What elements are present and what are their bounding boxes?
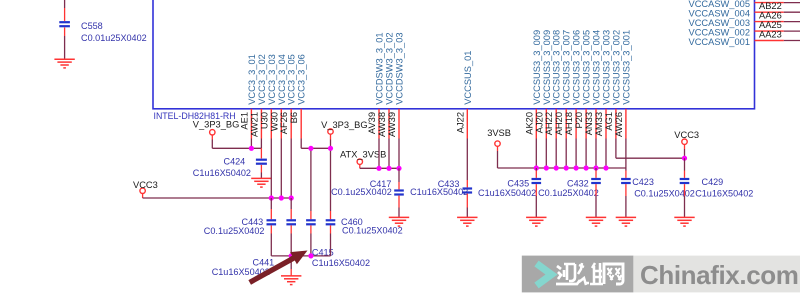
wire to C417 [398,168,400,189]
wire AK20 extension [535,139,537,169]
wire 3VSB drop [497,146,499,168]
svg-text:C1u16X50402: C1u16X50402 [478,188,536,198]
wire AF26 extension [290,139,292,199]
svg-text:AH18: AH18 [564,112,574,135]
wire C424 to ground [260,165,262,179]
svg-text:Chinafix.com: Chinafix.com [640,260,798,290]
svg-text:AA26: AA26 [759,11,782,21]
node junction C460 top [328,146,333,151]
svg-text:VCC3: VCC3 [133,180,158,190]
wire ATX_3VSB drop [359,164,361,168]
capacitor C443 [204,217,276,236]
wire AM33 extension [605,139,607,169]
wire bottom rail to ground [290,256,292,276]
wire AW38 extension [388,139,390,169]
node junction C415 top [308,146,313,151]
svg-text:VCC3: VCC3 [674,130,699,140]
capacitor C441 [212,219,296,277]
pin AA26 (VCCASW_003) right edge [689,11,800,28]
svg-text:AN33: AN33 [584,112,594,135]
node junction AE1/V_3P3_BG [249,146,254,151]
wire AJ20 extension [545,139,547,169]
wire net to C558 [64,0,66,21]
svg-text:VCCDSW3_3_01: VCCDSW3_3_01 [375,32,385,104]
capacitor C558 [59,21,146,43]
pin AE1 (VCC3_3_01) stub and labels [239,54,257,138]
svg-text:V_3P3_BG: V_3P3_BG [321,120,368,130]
pin AV39 (VCCDSW3_3_01) stub and labels [367,32,385,138]
svg-text:VCC3_3_01: VCC3_3_01 [247,54,257,105]
svg-text:AK20: AK20 [524,112,534,135]
wire C423 to ground [625,184,627,217]
svg-text:VCCSUS3_3_003: VCCSUS3_3_003 [602,30,612,105]
pin AA23 (VCCASW_001) right edge [689,30,800,47]
ground G-C423 [616,217,636,226]
svg-text:AJ20: AJ20 [534,112,544,133]
node junction U30/VCC3 [269,195,274,200]
pin AK20 (VCCSUS3_3_009) stub and labels [524,30,542,139]
wire to C443 [270,198,272,219]
svg-text:C432: C432 [567,179,589,189]
svg-text:C423: C423 [632,177,654,187]
pin AA25 (VCCASW_002) right edge [689,20,800,37]
pin AW26 (VCCSUS3_3_001) stub and labels [614,30,632,139]
capacitor C423 [621,177,695,198]
wire AH18 extension [575,139,577,169]
ground G-C424 [251,178,271,187]
wire AV39 extension [378,139,380,169]
wire AE1 extension [250,139,252,149]
svg-text:AM33: AM33 [594,112,604,136]
svg-text:3VSB: 3VSB [487,128,511,138]
svg-text:C435: C435 [507,179,529,189]
wire C415 bottom [310,225,312,256]
svg-text:C441: C441 [253,258,275,268]
wire C443 bottom [270,225,272,256]
svg-text:C0.1u25X0402: C0.1u25X0402 [342,225,403,235]
node junction AH18 [574,165,579,170]
pin AM33 (VCCSUS3_3_003) stub and labels [594,30,612,139]
wire C429 to ground [684,184,686,217]
node VCC3 right flag [674,130,699,144]
svg-text:VCC3_3_03: VCC3_3_03 [267,54,277,105]
node VCC3 left flag [133,180,158,194]
wire C441 bottom [290,225,292,256]
wire C460 bottom [330,225,332,256]
svg-text:P20: P20 [574,112,584,129]
node junction AK20 [534,165,539,170]
node junction AW38 [386,166,391,171]
node V_3P3_BG left flag [193,119,240,135]
capacitor C429 [680,177,754,198]
svg-text:VCCDSW3_3_02: VCCDSW3_3_02 [385,32,395,104]
node junction AH22 [554,165,559,170]
svg-text:VCCSUS3_3_002: VCCSUS3_3_002 [611,30,621,105]
svg-text:VCC3_3_04: VCC3_3_04 [277,54,287,105]
capacitor C417 [331,179,404,197]
svg-text:C558: C558 [81,21,103,31]
ground G-C432 [586,217,606,226]
wire B6 horizontal [301,147,330,149]
pin B6 (VCC3_3_06) stub and labels [289,54,307,138]
svg-text:VCCSUS3_3_009: VCCSUS3_3_009 [532,30,542,105]
pin (VCCASW_005) right edge [689,0,800,9]
svg-text:C429: C429 [702,177,724,187]
svg-text:VCCSUS3_3_008: VCCSUS3_3_008 [552,30,562,105]
capacitor C432 [538,178,601,198]
node junction AM33 [603,165,608,170]
ground G-C558 [54,59,74,68]
wire to C432 [595,168,597,178]
node junction AH20 [564,165,569,170]
svg-text:VCCSUS3_3_006: VCCSUS3_3_006 [572,30,582,105]
wire VCC3 drop [142,194,144,198]
wire AJ22 extension [466,139,468,188]
pin AH20 (VCCSUS3_3_007) stub and labels [554,30,572,139]
svg-text:AG1: AG1 [604,112,614,131]
wire AH22 extension [555,139,557,169]
node 3VSB flag [487,128,511,147]
svg-text:C1u16X50402: C1u16X50402 [312,258,370,268]
wire ATX_3VSB rail [360,167,399,169]
node junction W30/VCC3 [279,195,284,200]
wire VCC3 right drop [684,144,686,158]
node junction AN33 [593,165,598,170]
capacitor C460 [326,217,403,236]
svg-text:VCCSUS_01: VCCSUS_01 [463,51,473,105]
svg-text:AV39: AV39 [367,112,377,134]
svg-text:C0.1u25X0402: C0.1u25X0402 [331,187,392,197]
wire VCC3 rail [143,197,292,199]
annotation arrow to C415 [248,251,307,285]
wire bottom rail [271,255,330,257]
svg-text:AJ22: AJ22 [455,112,465,133]
wire AW21 extension [260,139,262,149]
pin AH18 (VCCSUS3_3_006) stub and labels [564,30,582,139]
node junction VCC3/C429 [682,156,687,161]
watermark chinafix [522,256,800,293]
wire U30 extension [270,139,272,199]
wire to C435 [535,168,537,178]
pin AF26 (VCC3_3_05) stub and labels [279,54,297,138]
node junction AJ20 [544,165,549,170]
svg-text:C1u16X50402: C1u16X50402 [410,187,468,197]
svg-text:V_3P3_BG: V_3P3_BG [193,119,240,129]
wire P20 extension [585,139,587,169]
svg-text:W30: W30 [269,112,279,131]
ground G-C417 [389,217,409,226]
node junction AW39 [396,166,401,171]
ground G-C433 [457,217,477,226]
wire to C460 [330,148,332,219]
svg-text:VCCSUS3_3_004: VCCSUS3_3_004 [592,30,602,105]
capacitor C435 [478,178,541,198]
wire to C429 [684,158,686,178]
svg-text:AW38: AW38 [377,112,387,137]
svg-text:AW39: AW39 [387,112,397,137]
wire AW39 extension [398,139,400,169]
ground G-bottom [281,276,301,285]
wire to C415 [310,148,312,219]
wire C433 to ground [466,194,468,218]
capacitor C415 [306,219,370,268]
svg-text:AW21: AW21 [249,112,259,137]
node junction bottom drop [289,253,294,258]
svg-text:C1u16X50402: C1u16X50402 [695,188,753,198]
wire AG1 to VCC3 [616,157,685,159]
pin AW38 (VCCDSW3_3_02) stub and labels [377,32,395,138]
node junction AV39 [376,166,381,171]
svg-text:C0.1u25X0402: C0.1u25X0402 [538,188,599,198]
capacitor C424 [193,156,267,178]
pin AW39 (VCCDSW3_3_03) stub and labels [387,32,405,138]
svg-text:AH20: AH20 [554,112,564,135]
svg-text:C0.1u25X0402: C0.1u25X0402 [204,226,265,236]
wire C558 to ground [64,36,66,59]
pin AW21 (VCC3_3_02) stub and labels [249,54,267,138]
pin AG1 (VCCSUS3_3_002) stub and labels [604,30,622,139]
wire W30 extension [280,139,282,199]
wire B6 extension [300,139,302,149]
svg-text:C0.1u25X0402: C0.1u25X0402 [634,188,695,198]
ground G-C435 [526,217,546,226]
svg-text:VCCSUS3_3_001: VCCSUS3_3_001 [621,30,631,105]
svg-text:B6: B6 [289,112,299,123]
svg-text:VCC3_3_05: VCC3_3_05 [287,54,297,105]
svg-text:AW26: AW26 [614,112,624,137]
node junction AF26/VCC3 [289,195,294,200]
svg-text:C424: C424 [224,156,246,166]
svg-text:AF26: AF26 [279,112,289,134]
wire AH20 extension [565,139,567,169]
svg-text:AH22: AH22 [544,112,554,135]
wire to C424 [260,148,262,158]
wire V_3P3_BG left drop [211,135,213,148]
pin P20 (VCCSUS3_3_005) stub and labels [574,30,592,139]
svg-text:AE1: AE1 [239,112,249,130]
pin AN33 (VCCSUS3_3_004) stub and labels [584,30,602,139]
node V_3P3_BG right flag [321,120,368,134]
wire AN33 extension [595,139,597,169]
pin U30 (VCC3_3_03) stub and labels [259,54,277,138]
svg-text:VCCASW_001: VCCASW_001 [689,37,751,47]
svg-text:VCC3_3_06: VCC3_3_06 [297,54,307,105]
op-amp U1 IC INTEL-DH82H81-RH body [153,0,755,121]
wire C432 to ground [595,184,597,217]
pin AB22 (VCCASW_004) right edge [689,1,800,18]
pin AJ22 (VCCSUS_01) stub and labels [455,51,473,139]
svg-text:VCCSUS3_3_009: VCCSUS3_3_009 [542,30,552,105]
svg-text:VCCSUS3_3_005: VCCSUS3_3_005 [582,30,592,105]
svg-text:U30: U30 [259,112,269,129]
node junction C415 bottom [308,253,313,258]
node ATX_3VSB flag [340,149,386,164]
svg-text:C1u16X50402: C1u16X50402 [193,168,251,178]
wire C435 to ground [535,184,537,217]
wire AG1 extension [615,139,617,159]
svg-text:VCCASW_003: VCCASW_003 [689,18,751,28]
pin AH22 (VCCSUS3_3_008) stub and labels [544,30,562,139]
wire to C441 [290,198,292,219]
node junction P20 [584,165,589,170]
wire C417 to ground [398,196,400,218]
svg-text:VCCSUS3_3_007: VCCSUS3_3_007 [562,30,572,105]
pin AJ20 (VCCSUS3_3_009) stub and labels [534,30,552,139]
wire AW26 extension [625,139,627,178]
svg-text:VCC3_3_02: VCC3_3_02 [257,54,267,105]
wire V_3P3_BG right drop [330,134,332,148]
pin W30 (VCC3_3_04) stub and labels [269,54,287,138]
wire V_3P3_BG horizontal [212,147,261,149]
svg-text:VCCDSW3_3_03: VCCDSW3_3_03 [395,32,405,104]
svg-text:C0.01u25X0402: C0.01u25X0402 [81,33,147,43]
ground G-C429 [674,217,694,226]
capacitor C433 [410,179,472,197]
wire 3VSB rail [498,167,626,169]
svg-text:AA23: AA23 [759,30,782,40]
